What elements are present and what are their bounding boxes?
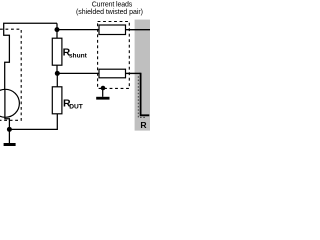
shield ground node on leads box [101, 86, 106, 91]
resistor R_DUT [52, 87, 62, 114]
ground [4, 143, 16, 146]
lead resistor 2 [99, 69, 126, 78]
wire: node A to lead 1 [57, 29, 99, 31]
wire: lead 2 out, down into cryostat [126, 72, 141, 74]
svg-text:(shielded twisted pair): (shielded twisted pair) [76, 9, 143, 16]
node B (junction dot) [55, 71, 60, 76]
wire: R_shunt to node B [56, 65, 58, 73]
label: Current leads (shielded twisted pair) [76, 2, 143, 16]
wire: bottom return rail [9, 114, 57, 130]
shield box (dashed) around current leads [98, 22, 130, 89]
node A (junction dot) [55, 27, 60, 32]
svg-text:R: R [140, 120, 147, 130]
wire: node B down to R_DUT [56, 73, 58, 86]
wire: lead 1 out to edge [126, 29, 151, 31]
svg-text:shunt: shunt [69, 52, 88, 59]
shield continuation (dotted) in cryostat [138, 76, 146, 117]
svg-text:Current leads: Current leads [92, 2, 133, 9]
node G (junction dot) [7, 127, 12, 132]
wire: node A down to R_shunt [56, 30, 58, 39]
lead resistor 1 [99, 25, 126, 35]
wire: top rail [4, 23, 57, 90]
wire: node B to lead 2 [57, 72, 99, 74]
resistor R_shunt [52, 38, 62, 65]
wire: source bottom to ground node [5, 117, 9, 143]
current source I [0, 89, 19, 117]
shield box (dashed) around current source [0, 29, 21, 120]
cryostat gray band [135, 20, 150, 131]
wire: drop to node A [56, 23, 58, 29]
svg-text:DUT: DUT [69, 103, 83, 110]
